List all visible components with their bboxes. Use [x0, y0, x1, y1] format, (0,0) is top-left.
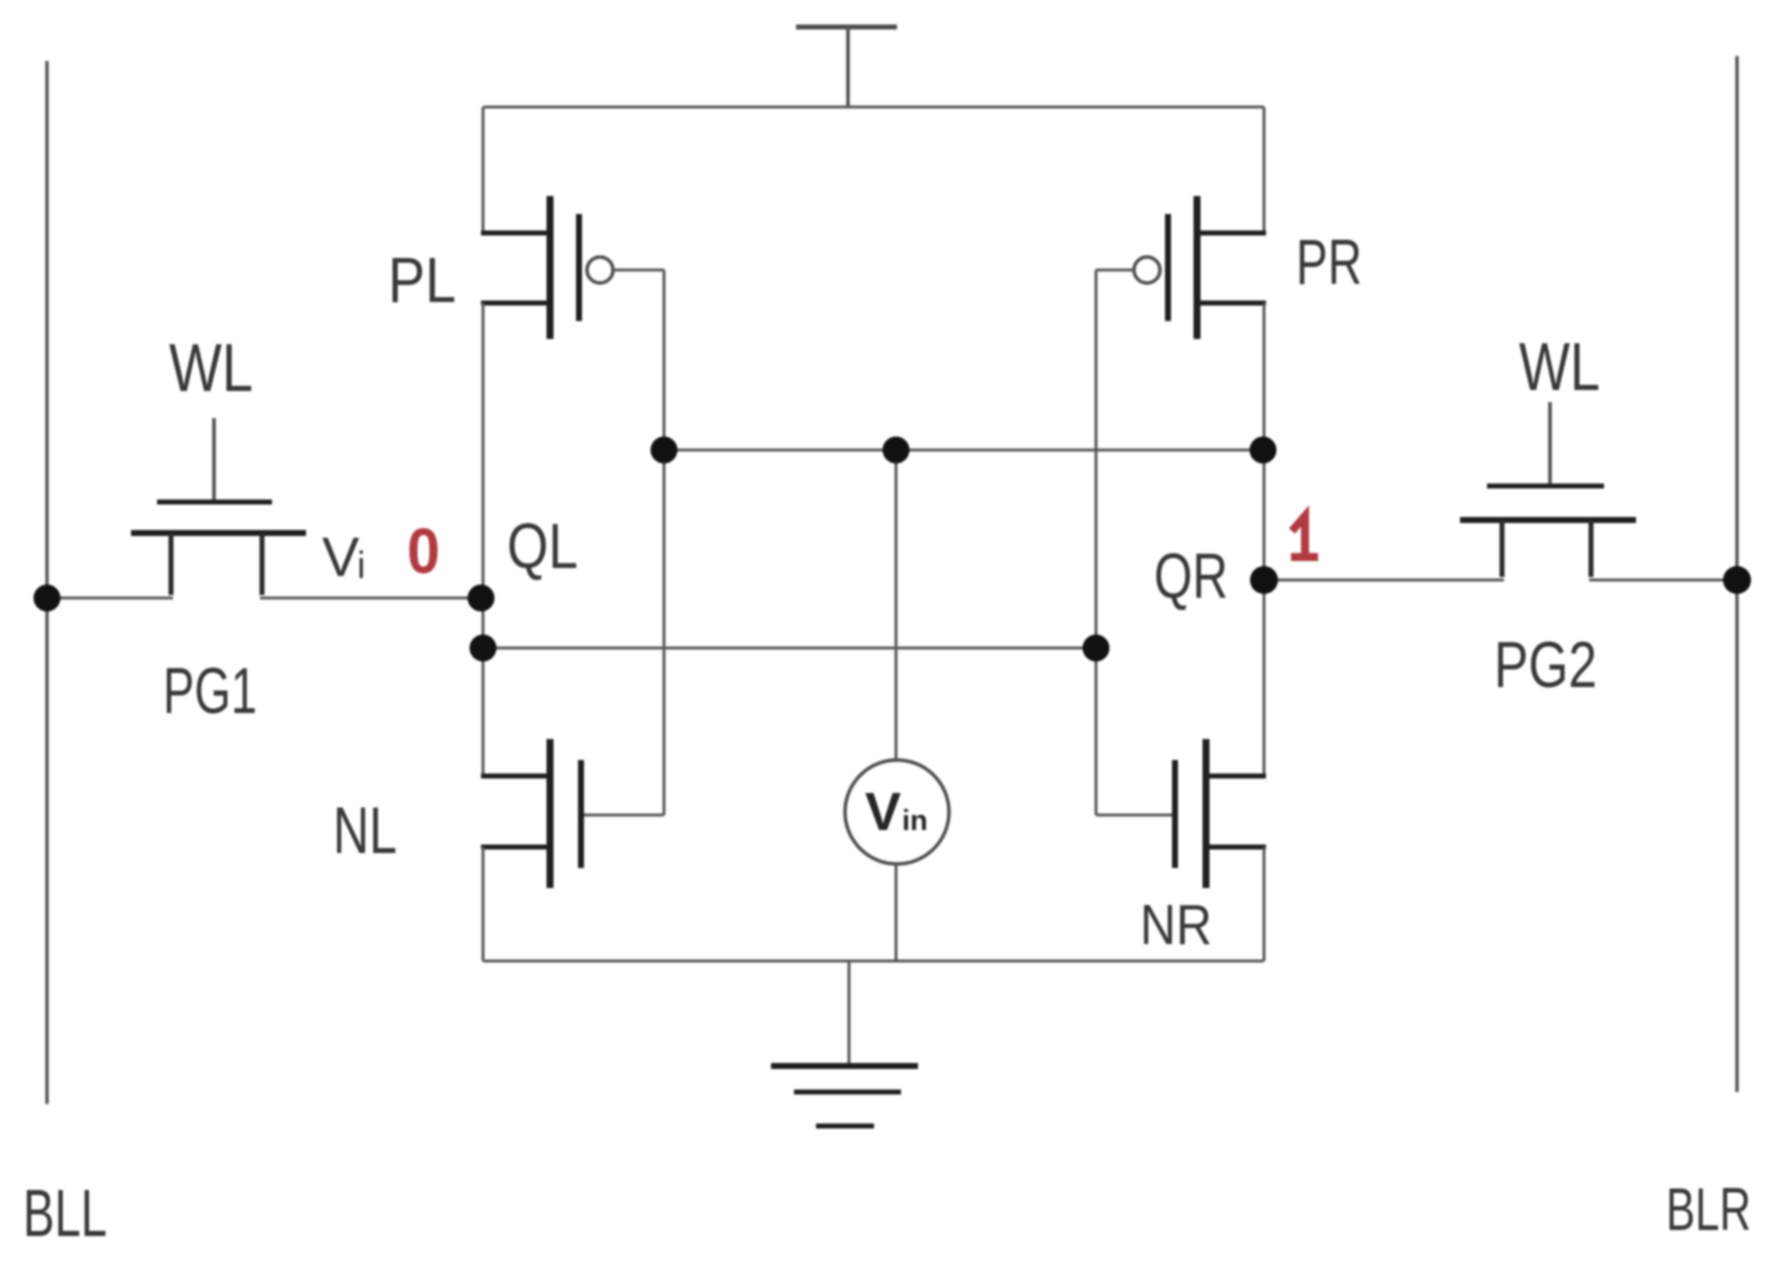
node QL to gates: [470, 635, 497, 662]
PR gate bubble: [1134, 257, 1160, 283]
wire: PG2 to BLR: [1589, 579, 1737, 582]
wire: PL gate to node: [613, 269, 664, 272]
svg-text:BLR: BLR: [1666, 1176, 1751, 1243]
wire: NL gate to node: [584, 814, 664, 817]
svg-text:QL: QL: [507, 510, 578, 582]
label 1 (red): [1291, 516, 1318, 557]
svg-text:NR: NR: [1140, 893, 1212, 957]
transistor NL (NMOS): [481, 739, 581, 888]
VDD supply symbol: [796, 27, 897, 107]
svg-text:WL: WL: [169, 330, 253, 406]
wire: Vin top lead: [895, 450, 898, 760]
node QR upper junction: [1250, 437, 1277, 464]
node QL: [468, 585, 495, 612]
transistor NR (NMOS): [1175, 739, 1266, 888]
wire: PR/NR gate vertical: [1095, 270, 1098, 815]
wire: cross-couple bottom (QL to gates PR/NR): [483, 647, 1096, 650]
wire: cross-couple top (gates PL/NL to QR): [664, 449, 1264, 452]
svg-text:V: V: [322, 525, 360, 588]
svg-text:PG2: PG2: [1494, 628, 1597, 701]
source Vin circle: [845, 760, 949, 864]
wire: left edge mid (PL drain to QL and NL): [482, 303, 485, 776]
svg-text:NL: NL: [333, 793, 397, 867]
wire: PL/NL gate vertical: [663, 270, 666, 815]
node BLR junction: [1723, 566, 1751, 594]
ground: [771, 961, 918, 1126]
wire: right edge upper (VDD to PR source): [1263, 107, 1266, 233]
svg-text:0: 0: [407, 515, 440, 587]
wire: right edge lower (NR source to ground rail): [1263, 847, 1266, 961]
wire: NR gate to node: [1096, 814, 1172, 817]
wire: left edge upper (VDD to PL source): [482, 107, 485, 233]
svg-text:PL: PL: [388, 244, 456, 316]
transistor PR (PMOS): [1168, 196, 1266, 339]
svg-text:V: V: [865, 782, 901, 842]
node gate-left junction: [651, 437, 678, 464]
wire: QR to PG2: [1264, 579, 1504, 582]
PL gate bubble: [587, 257, 613, 283]
wire: left edge lower (NL source to ground rail): [482, 847, 485, 961]
svg-text:WL: WL: [1519, 329, 1600, 405]
node QR: [1250, 566, 1278, 594]
wire: Vin bottom lead: [895, 864, 898, 961]
node BLL junction: [34, 585, 61, 612]
svg-text:i: i: [357, 545, 365, 587]
wire: bottom rail of inverter pair: [483, 960, 1264, 963]
svg-text:in: in: [902, 805, 928, 837]
node gate-right junction: [1083, 635, 1110, 662]
node Vin junction: [883, 437, 910, 464]
wire: BLL to PG1: [47, 597, 173, 600]
svg-text:QR: QR: [1154, 540, 1228, 612]
svg-text:PG1: PG1: [163, 654, 257, 727]
wire: PR gate to node: [1096, 269, 1134, 272]
svg-text:BLL: BLL: [23, 1176, 107, 1251]
svg-text:PR: PR: [1296, 226, 1362, 298]
bitline BLR: [1735, 56, 1739, 1092]
wire: PG1 to QL: [260, 597, 483, 600]
bitline BLL: [45, 61, 49, 1104]
transistor PG2 (NMOS pass gate): [1460, 402, 1636, 577]
wire: right edge mid (PR drain to QR and NR): [1263, 303, 1266, 776]
transistor PL (PMOS): [481, 196, 579, 339]
transistor PG1 (NMOS pass gate): [131, 418, 306, 595]
wire: top rail of inverter pair: [483, 106, 1264, 109]
